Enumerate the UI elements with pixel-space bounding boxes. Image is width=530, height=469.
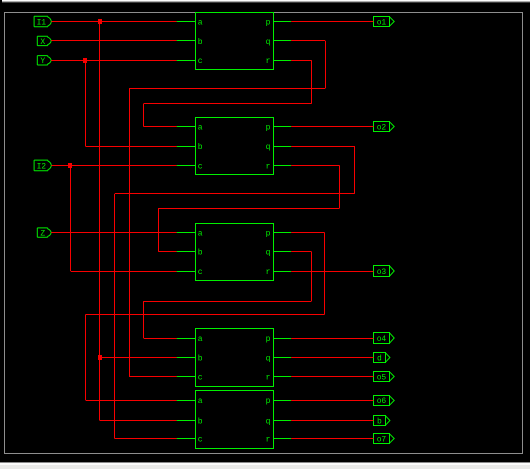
- svg-text:p: p: [266, 397, 271, 406]
- wire U3.p to U5.a segment h3: [86, 400, 177, 402]
- pin U2.q: [266, 143, 292, 152]
- svg-text:r: r: [266, 268, 271, 277]
- svg-text:Z: Z: [40, 230, 45, 239]
- component U4: [196, 329, 274, 387]
- wire U1.q to U4.c segment h3: [129, 376, 177, 378]
- pin U3.a: [177, 230, 203, 239]
- svg-text:q: q: [266, 249, 271, 258]
- svg-text:r: r: [266, 162, 271, 171]
- svg-text:o4: o4: [377, 335, 387, 344]
- svg-text:X: X: [40, 38, 45, 47]
- svg-text:Y: Y: [40, 57, 45, 66]
- pin U4.a: [177, 335, 203, 344]
- svg-text:b: b: [198, 249, 203, 258]
- svg-text:q: q: [266, 38, 271, 47]
- pin U1.c: [177, 57, 203, 66]
- pin U5.b: [177, 417, 203, 426]
- component U1: [196, 13, 274, 70]
- svg-text:o7: o7: [377, 436, 387, 445]
- wire U3.p to U5.a segment h2: [86, 314, 325, 316]
- output port o3: [374, 266, 395, 277]
- wire U5.p to o6: [291, 400, 373, 402]
- wire U3.q to U4.a segment v1: [311, 252, 313, 302]
- output port o6: [374, 396, 395, 407]
- wire U3.p to U5.a segment v1: [324, 233, 326, 315]
- pin U1.p: [266, 18, 292, 27]
- wire U1.r to U2.a segment h3: [144, 126, 177, 128]
- wire U2.q to U5.c segment h2: [115, 193, 354, 195]
- svg-text:c: c: [198, 57, 203, 66]
- svg-text:p: p: [266, 335, 271, 344]
- wire U4.p to o4: [291, 338, 373, 340]
- pin U4.q: [266, 354, 292, 363]
- wire U1.r to U2.a segment v2: [143, 104, 145, 127]
- junction I1 net at (99.7,357.4): [98, 355, 102, 360]
- wire I2 to U2.c: [51, 165, 176, 167]
- pin U5.a: [177, 397, 203, 406]
- wire I1 net vertical down: [99, 22, 101, 421]
- wire U3.p to U5.a segment v2: [85, 314, 87, 400]
- wire U1.q to U4.c segment h2: [129, 88, 325, 90]
- svg-text:q: q: [266, 354, 271, 363]
- component U2: [196, 118, 274, 175]
- pin U2.b: [177, 143, 203, 152]
- svg-text:I1: I1: [37, 18, 47, 27]
- svg-text:o6: o6: [377, 397, 387, 406]
- output port d: [374, 353, 390, 364]
- wire Y to U1.c: [51, 60, 176, 62]
- pin U5.c: [177, 436, 203, 445]
- pin U2.r: [266, 162, 292, 171]
- pin U3.b: [177, 249, 203, 258]
- wire U2.q to U5.c segment h3: [115, 438, 177, 440]
- pin U2.a: [177, 124, 203, 133]
- wire U1.p to o1: [291, 21, 373, 23]
- junction I1 net at (99.7,21.5): [98, 19, 102, 24]
- svg-text:c: c: [198, 268, 203, 277]
- junction I2 net at (70.7,165.4): [68, 163, 72, 168]
- wire I1 to U1.a: [51, 21, 176, 23]
- svg-text:c: c: [198, 374, 203, 383]
- input port Y: [37, 56, 51, 67]
- svg-text:q: q: [266, 417, 271, 426]
- pin U5.p: [266, 397, 292, 406]
- wire U2.q to U5.c segment h1: [291, 146, 354, 148]
- svg-text:o2: o2: [377, 124, 387, 133]
- wire U1.r to U2.a segment v1: [311, 60, 313, 103]
- svg-text:I2: I2: [37, 162, 47, 171]
- wire U1.q to U4.c segment h1: [291, 40, 325, 42]
- wire U2.r to U3.b segment v2: [158, 208, 160, 252]
- svg-text:p: p: [266, 230, 271, 239]
- component U5: [196, 391, 274, 449]
- pin U1.q: [266, 38, 292, 47]
- wire U2.r to U3.b segment h2: [158, 208, 339, 210]
- svg-text:o3: o3: [377, 268, 387, 277]
- wire U1.q to U4.c segment v2: [129, 88, 131, 377]
- wire X to U1.b: [51, 40, 176, 42]
- pin U1.a: [177, 18, 203, 27]
- input port I2: [34, 160, 51, 171]
- pin U4.p: [266, 335, 292, 344]
- output port o7: [374, 434, 395, 445]
- wire U3.r to o3: [291, 271, 373, 273]
- wire U3.q to U4.a segment h3: [144, 338, 177, 340]
- wire U5.r to o7: [291, 438, 373, 440]
- output port o2: [374, 122, 395, 133]
- pin U3.q: [266, 249, 292, 258]
- output port o5: [374, 372, 395, 383]
- wire Z to U3.a: [51, 232, 176, 234]
- svg-text:b: b: [377, 417, 382, 426]
- pin U1.r: [266, 57, 292, 66]
- svg-text:c: c: [198, 436, 203, 445]
- wire U2.r to U3.b segment v1: [339, 165, 341, 208]
- input port X: [37, 36, 51, 47]
- pin U3.r: [266, 268, 292, 277]
- input port I1: [34, 16, 51, 27]
- wire U1.r to U2.a segment h2: [144, 103, 312, 105]
- pin U3.p: [266, 230, 292, 239]
- wire U3.q to U4.a segment v2: [143, 301, 145, 338]
- svg-text:c: c: [198, 162, 203, 171]
- wire Y net vertical down: [85, 60, 87, 146]
- wire U1.r to U2.a segment h1: [291, 60, 311, 62]
- pin U4.b: [177, 354, 203, 363]
- svg-text:a: a: [198, 230, 203, 239]
- wire U2.q to U5.c segment v1: [354, 146, 356, 194]
- wire U2.p to o2: [291, 126, 373, 128]
- wire I1 net to U4.b: [100, 357, 177, 359]
- svg-text:o1: o1: [377, 18, 387, 27]
- junction Y net at (85.4,60.3): [83, 58, 87, 63]
- wire Y net to U2.b: [85, 146, 176, 148]
- output port b: [374, 416, 390, 427]
- pin U5.r: [266, 436, 292, 445]
- svg-text:b: b: [198, 143, 203, 152]
- pin U2.p: [266, 124, 292, 133]
- input port Z: [37, 228, 51, 239]
- svg-text:q: q: [266, 143, 271, 152]
- svg-text:d: d: [377, 354, 382, 363]
- pin U1.b: [177, 38, 203, 47]
- svg-text:p: p: [266, 124, 271, 133]
- wire I1 net to U5.b: [100, 420, 177, 422]
- svg-text:r: r: [266, 436, 271, 445]
- output port o1: [374, 17, 395, 28]
- wire U3.p to U5.a segment h1: [291, 232, 324, 234]
- component U3: [196, 224, 274, 281]
- svg-text:p: p: [266, 18, 271, 27]
- wire U3.q to U4.a segment h2: [144, 301, 312, 303]
- wire U4.r to o5: [291, 376, 373, 378]
- svg-text:b: b: [198, 38, 203, 47]
- wire U2.r to U3.b segment h3: [158, 251, 176, 253]
- output port o4: [374, 333, 395, 344]
- svg-text:a: a: [198, 18, 203, 27]
- wire U1.q to U4.c segment v1: [325, 41, 327, 88]
- pin U5.q: [266, 417, 292, 426]
- svg-text:r: r: [266, 57, 271, 66]
- wire I2 net to U3.c: [71, 271, 177, 273]
- svg-text:a: a: [198, 397, 203, 406]
- wire U2.q to U5.c segment v2: [114, 194, 116, 439]
- wire U5.q to b: [291, 420, 373, 422]
- wire U3.q to U4.a segment h1: [291, 251, 311, 253]
- wire I2 net vertical down: [70, 165, 72, 271]
- svg-text:a: a: [198, 124, 203, 133]
- pin U3.c: [177, 268, 203, 277]
- svg-text:b: b: [198, 417, 203, 426]
- svg-text:o5: o5: [377, 374, 387, 383]
- pin U4.r: [266, 374, 292, 383]
- pin U4.c: [177, 374, 203, 383]
- wire U4.q to d: [291, 357, 373, 359]
- svg-text:b: b: [198, 354, 203, 363]
- wire U2.r to U3.b segment h1: [291, 165, 339, 167]
- svg-text:r: r: [266, 374, 271, 383]
- pin U2.c: [177, 162, 203, 171]
- svg-text:a: a: [198, 335, 203, 344]
